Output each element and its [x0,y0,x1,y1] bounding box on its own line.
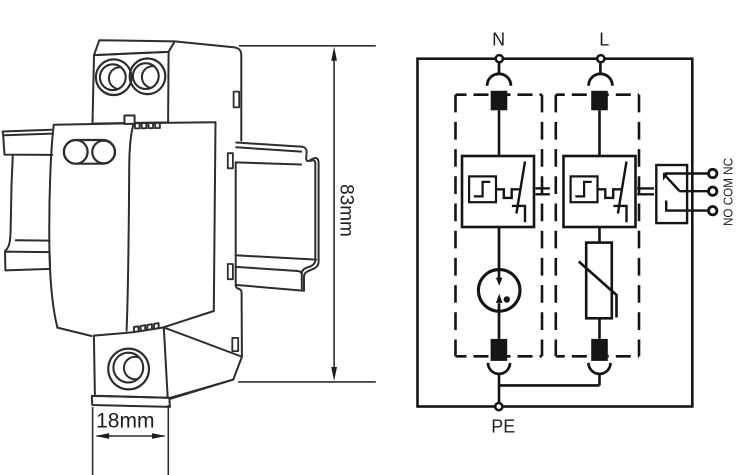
GDT lower stem [498,303,501,339]
U1 switch blade [516,162,525,214]
wire junction horizontal [499,384,600,387]
module 2 dashed border top [556,93,639,96]
slot lower on base panel [228,264,233,279]
module 1 dashed border left [454,95,457,357]
thermal disconnector box U2 [564,156,636,227]
module 2 dashed border bottom [556,355,639,358]
terminal circle PE [495,403,502,410]
screw terminal B outer [130,59,166,95]
svg-text:PE: PE [491,416,515,436]
remote contact box [656,165,687,223]
lower terminal block front face [94,327,168,397]
svg-text:83mm: 83mm [336,184,357,237]
83mm bottom arrowhead [331,367,337,381]
release tab on module top [124,116,134,124]
U2 thermal element rect [571,176,598,202]
remote terminal circle NC [709,169,717,177]
screw terminal A inner [100,64,126,90]
upper terminal block roof [94,40,175,55]
screw terminal A crescent [109,67,131,89]
DIN rail left end: web [5,155,49,251]
module bottom right edge [164,311,214,327]
module 2 dashed border left [554,95,557,357]
U1 thermal element rect [469,176,496,202]
lower block bottom band [92,396,170,407]
disconnector arc N [487,74,511,86]
mechanical linkage dashes box1-box2 upper [536,187,550,189]
wire L square to box2 [598,110,601,156]
slot on upper block side [234,92,240,108]
module window pill [64,140,115,164]
module top edge [54,122,216,125]
module bottom vent teeth [134,323,159,332]
wire N arc to PE [498,374,501,404]
DIN rail left end: top flange [3,130,53,155]
svg-text:L: L [599,29,609,49]
svg-text:N: N [492,29,505,49]
outer enclosure box [418,59,693,407]
U1 contact T-bar [512,206,525,222]
U2 step waveform [575,182,591,197]
module right edge [214,122,216,311]
GDT gas dot [504,296,510,302]
wire varistor to square [598,318,601,339]
mechanical linkage dashes box2-contact lower [637,193,654,195]
18mm left extension line [92,407,94,475]
GDT lower arrowhead [496,294,503,303]
terminal circle N [496,55,503,62]
base side panel top edge and right edge (upper part) [175,41,242,140]
slot upper on base panel [228,153,233,168]
U2 switch blade [618,162,627,214]
svg-text:NO COM NC: NO COM NC [720,158,735,226]
18mm left arrowhead [95,433,109,439]
GDT upper arrowhead [496,278,503,286]
module front/side transition curve [127,124,134,330]
wire box1 to GDT [498,227,501,279]
wire N square to box1 [498,110,501,156]
lower screw terminal outer [108,349,149,390]
remote contact NC line [665,172,708,174]
18mm dimension line [97,435,165,437]
83mm top extension line [239,45,376,47]
wire L stem circle-to-arc [599,63,602,75]
mechanical linkage dashes box1-box2 lower [536,193,550,195]
module left edge [49,125,57,328]
U1 step waveform [474,182,490,197]
remote terminal circle COM [709,187,717,195]
screw terminal B inner [133,63,159,89]
plug contact square L top [591,91,608,111]
18mm right arrowhead [152,433,166,439]
83mm top arrowhead [331,47,337,61]
varistor diagonal [579,262,617,318]
module window circle left [64,140,88,164]
wire N stem circle-to-arc [498,63,501,75]
screw terminal B crescent [142,66,164,88]
U1 linkage notch [496,189,520,198]
disconnector arc L [589,74,613,86]
terminal circle L [597,55,604,62]
DIN rail left end: bottom flange [5,252,50,271]
module top vent teeth [135,123,160,129]
plug contact square L bottom [591,339,608,361]
base bottom edge [169,380,233,399]
lower screw terminal crescent [124,357,147,380]
wire L arc to junction [598,374,601,386]
svg-text:18mm: 18mm [96,410,154,433]
83mm bottom extension line [238,381,376,383]
remote contact COM line [679,190,707,192]
slot bottom on base panel [232,338,238,351]
upper terminal block front face [93,52,169,124]
18mm right extension line [167,405,169,475]
module 2 dashed border right [638,95,641,357]
U2 linkage notch [598,189,622,198]
module front bottom edge [57,328,91,336]
module 1 dashed border top [456,93,543,96]
screw terminal A outer [96,59,132,95]
remote contact pivot wedge [663,173,669,181]
bottom arc N [488,363,510,374]
module 1 dashed border bottom [456,355,543,358]
plug contact square N top [491,91,508,111]
DIN rail right: inner contour [302,160,316,288]
DIN rail right: bottom flange lines [236,255,317,274]
module 1 dashed border right [541,95,544,357]
bottom arc L [589,363,611,374]
remote contact NO hook [666,201,707,211]
thermal disconnector box U1 [462,156,534,227]
gas discharge tube circle [478,270,520,312]
wire box2 to varistor [598,227,601,243]
83mm dimension line [333,60,335,369]
remote contact blade [665,176,679,191]
remote terminal circle NO [709,207,717,215]
U2 contact T-bar [613,206,626,222]
DIN rail right: top flange band [236,143,302,165]
base side panel middle edge [170,162,242,399]
module window circle right [92,141,115,164]
lower screw terminal inner [113,353,143,383]
varistor MOV rect [586,243,612,319]
lower block side top edge [164,327,242,356]
mechanical linkage dashes box2-contact upper [637,187,654,189]
plug contact square N bottom [491,339,508,361]
DIN rail right: outer contour [236,147,319,291]
